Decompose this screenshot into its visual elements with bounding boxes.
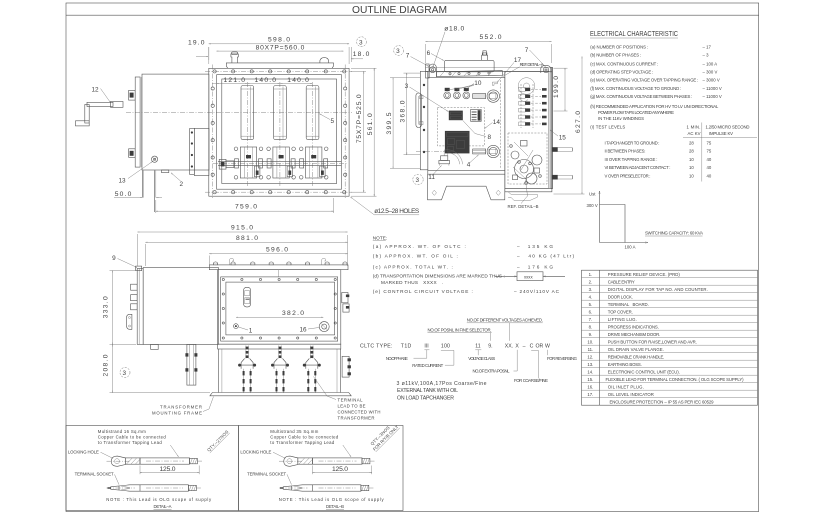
svg-text:(b) APPROX. WT. OF OIL :: (b) APPROX. WT. OF OIL :: [373, 253, 458, 258]
svg-text:7: 7: [406, 53, 410, 60]
svg-text:NO.OF DIFFERENT VOLTAGES ACHIE: NO.OF DIFFERENT VOLTAGES ACHIEVED.: [467, 318, 543, 323]
svg-text:1.2/50 MICRO SECOND: 1.2/50 MICRO SECOND: [706, 124, 750, 129]
cabinet base with notch: [428, 170, 505, 174]
svg-text:552.0: 552.0: [480, 34, 502, 41]
svg-text:399.5: 399.5: [386, 112, 393, 134]
flange centerlines: [205, 70, 352, 72]
svg-text:DOOR LOCK.: DOOR LOCK.: [608, 295, 633, 300]
svg-text:6.: 6.: [589, 310, 593, 315]
svg-text:40: 40: [707, 174, 712, 179]
svg-text:RATED CURRENT: RATED CURRENT: [412, 363, 443, 368]
svg-text:DETAIL–B: DETAIL–B: [326, 504, 344, 509]
svg-text:10.: 10.: [587, 340, 593, 345]
svg-text:ELECTRONIC CONTROL UNIT (ECU).: ELECTRONIC CONTROL UNIT (ECU).: [608, 370, 680, 375]
tank top flange bar (hatched): [209, 265, 348, 270]
svg-text:598.0: 598.0: [268, 36, 290, 43]
svg-text:9.: 9.: [488, 344, 492, 350]
svg-text:TOP COVER.: TOP COVER.: [608, 310, 633, 315]
svg-text:16: 16: [300, 327, 308, 334]
svg-text:QTY.–27NOS: QTY.–27NOS: [206, 429, 229, 452]
svg-text:7: 7: [525, 47, 529, 54]
left end plate (section, dark): [426, 64, 430, 78]
svg-text:– 3000 V: – 3000 V: [703, 77, 720, 82]
compartment divider: [504, 71, 506, 188]
right lower flange column: [342, 356, 349, 377]
right flange bolts: [344, 87, 347, 176]
svg-text:300 V: 300 V: [587, 203, 598, 208]
svg-text:SWITCHING CAPACITY: 60 KVA: SWITCHING CAPACITY: 60 KVA: [645, 231, 703, 236]
svg-text:915.0: 915.0: [231, 225, 253, 232]
item 16 oil inlet plug: [319, 322, 329, 332]
svg-text:to Transformer Tapping Lead: to Transformer Tapping Lead: [270, 440, 335, 445]
svg-text:(f) MAX. CONTINUOUS VOLTAGE TO: (f) MAX. CONTINUOUS VOLTAGE TO GROUND :: [590, 86, 681, 91]
svg-text:ELECTRICAL CHARACTERISTIC: ELECTRICAL CHARACTERISTIC: [590, 29, 678, 38]
terminal assembly 1: [238, 346, 256, 394]
PRD nipple on cover: [482, 55, 488, 60]
svg-text:10: 10: [689, 174, 694, 179]
lifting hooks: [230, 258, 234, 265]
top flange band (hatched): [437, 71, 503, 77]
bottom flange: [218, 344, 341, 349]
right dome fitting on lid: [320, 58, 329, 63]
terminal board: [471, 110, 482, 122]
svg-text:EARTHING BOSS.: EARTHING BOSS.: [608, 362, 642, 367]
crank handle item 12: [87, 102, 113, 106]
svg-text:9: 9: [112, 255, 116, 262]
tap selector cylinder 2: [274, 86, 287, 140]
svg-text:TERMINAL SOCKET: TERMINAL SOCKET: [247, 472, 286, 477]
svg-text:AC KV: AC KV: [688, 131, 701, 136]
svg-text:CLTC TYPE:: CLTC TYPE:: [360, 344, 393, 350]
dashed service rect: [437, 108, 484, 146]
svg-text:596.0: 596.0: [266, 247, 288, 254]
svg-text:POWER FLOW TAPS LOCATED ANYWHE: POWER FLOW TAPS LOCATED ANYWHERE: [598, 110, 674, 115]
svg-text:199.0: 199.0: [553, 76, 560, 98]
bottom flange bolts: [213, 191, 346, 194]
svg-text:DETAIL–A: DETAIL–A: [154, 504, 172, 509]
door handle/lock: [127, 314, 132, 329]
hatch neck: [125, 458, 140, 464]
crank socket lower: [473, 149, 486, 154]
svg-text:3 ø11kV,100A,17Pos Coarse/Fine: 3 ø11kV,100A,17Pos Coarse/Fine: [397, 381, 487, 387]
svg-text:OIL INLET PLUG.: OIL INLET PLUG.: [608, 385, 644, 390]
svg-text:13.: 13.: [587, 362, 593, 367]
svg-text:11: 11: [428, 174, 435, 181]
terminal rods right lower: [552, 175, 572, 179]
terminal rods right upper: [552, 148, 572, 152]
svg-text:368.0: 368.0: [400, 100, 407, 122]
svg-text:Copper Cable to be connected: Copper Cable to be connected: [270, 434, 339, 439]
svg-text:NOTE : This Lead is OLG scope: NOTE : This Lead is OLG scope of supply: [279, 497, 385, 502]
svg-text:881.0: 881.0: [236, 235, 258, 242]
svg-text:NO.OF PHASE: NO.OF PHASE: [386, 356, 408, 361]
svg-text:FLEXIBLE LEAD FOR TERMINAL CON: FLEXIBLE LEAD FOR TERMINAL CONNECTION. (…: [606, 377, 745, 382]
push buttons (10): [444, 88, 470, 99]
svg-text:15.: 15.: [587, 377, 593, 382]
svg-text:12.: 12.: [587, 355, 593, 360]
svg-text:–: –: [523, 344, 526, 350]
lead 2 (bottom): [279, 487, 308, 489]
svg-text:(b) NUMBER OF PHASES :: (b) NUMBER OF PHASES :: [590, 53, 641, 58]
drive box left flange plate: [135, 77, 140, 167]
svg-text:III OVER TAPPING RANGE :: III OVER TAPPING RANGE :: [605, 157, 658, 162]
svg-text:12: 12: [92, 86, 100, 93]
svg-text:28: 28: [689, 149, 694, 154]
svg-text:FOR REVERSING: FOR REVERSING: [547, 356, 578, 361]
selector mechanism 1: [234, 147, 263, 179]
svg-text:PROGRESS INDICATIONS.: PROGRESS INDICATIONS.: [608, 325, 659, 330]
svg-text:EXTERNAL TANK WITH OIL: EXTERNAL TANK WITH OIL: [397, 388, 458, 394]
lead 2 (bottom): [107, 487, 136, 489]
svg-text:ø12.5–28 HOLES: ø12.5–28 HOLES: [374, 208, 419, 215]
svg-text:2: 2: [180, 181, 184, 188]
svg-text:8.: 8.: [589, 325, 593, 330]
compartment base: [505, 188, 552, 192]
rotated qty text 2 lines: [368, 420, 400, 452]
svg-text:W: W: [545, 344, 550, 350]
svg-text:80X7P=560.0: 80X7P=560.0: [256, 44, 305, 51]
svg-text:(c) MAX. CONTINUOUS CURRENT :: (c) MAX. CONTINUOUS CURRENT :: [590, 61, 658, 66]
svg-text:(a) APPROX. WT. OF OLTC :: (a) APPROX. WT. OF OLTC :: [373, 244, 466, 249]
svg-text:TRANSFORMER: TRANSFORMER: [338, 416, 375, 421]
svg-text:3: 3: [396, 48, 400, 55]
svg-text:IN THE 11Kv WINDINGS: IN THE 11Kv WINDINGS: [598, 116, 644, 121]
svg-text:16.: 16.: [587, 385, 593, 390]
svg-text:REMOVABLE CRANK HANDLE.: REMOVABLE CRANK HANDLE.: [608, 355, 665, 360]
svg-text:LIFTING LUG.: LIFTING LUG.: [608, 317, 637, 322]
svg-text:ENCLOSURE PROTECTION – IP 55 A: ENCLOSURE PROTECTION – IP 55 AS PER IEC …: [610, 400, 715, 405]
svg-text:– 40 KG (47 Ltr): – 40 KG (47 Ltr): [517, 253, 574, 258]
svg-text:11.: 11.: [588, 347, 594, 352]
svg-text:LOCKING HOLE: LOCKING HOLE: [68, 450, 99, 455]
bottom tab: [151, 344, 159, 349]
lifting lug left (7): [429, 64, 436, 77]
svg-text:DRIVE MECHANISM DOOR.: DRIVE MECHANISM DOOR.: [608, 332, 661, 337]
drive box left flange: [137, 269, 143, 345]
svg-text:– 11000 V: – 11000 V: [703, 94, 722, 99]
graph X axis: [600, 242, 649, 244]
tank outer flange rect: [209, 68, 349, 196]
svg-text:CABLE ENTRY: CABLE ENTRY: [608, 280, 635, 285]
svg-text:Multistrand 35 Sq.mm: Multistrand 35 Sq.mm: [270, 429, 318, 434]
svg-text:X: X: [515, 344, 519, 350]
svg-text:I TAPCHANGER TO GROUND :: I TAPCHANGER TO GROUND :: [605, 140, 660, 145]
svg-text:XX.: XX.: [505, 344, 513, 350]
svg-text:14: 14: [493, 119, 501, 126]
svg-text:NOTE:: NOTE:: [373, 235, 387, 240]
svg-text:10: 10: [689, 165, 694, 170]
right compartment: [505, 71, 549, 188]
svg-text:125.0: 125.0: [160, 466, 176, 473]
earthing boss item 13: [152, 156, 158, 162]
svg-text:DIGITAL DISPLAY FOR TAP NO. AN: DIGITAL DISPLAY FOR TAP NO. AND COUNTER.: [608, 287, 708, 292]
transformer mounting frame bar: [210, 393, 351, 396]
svg-text:1.: 1.: [589, 272, 593, 277]
svg-text:75: 75: [707, 140, 712, 145]
door handle: [416, 93, 422, 128]
svg-text:OIL DRAIN VALVE FLANGE.: OIL DRAIN VALVE FLANGE.: [608, 347, 664, 352]
svg-text:(d) TRANSPORTATION DIMENSIONS: (d) TRANSPORTATION DIMENSIONS ARE MARKED…: [373, 274, 505, 279]
svg-text:ON LOAD TAPCHANGER: ON LOAD TAPCHANGER: [397, 395, 454, 401]
tank top lid: [226, 63, 333, 68]
svg-text:208.0: 208.0: [102, 354, 109, 376]
svg-text:MARKED THUS XXXX .: MARKED THUS XXXX .: [381, 280, 443, 285]
svg-text:– 11000 V: – 11000 V: [703, 86, 722, 91]
drive box legs: [142, 170, 144, 197]
svg-text:333.0: 333.0: [102, 296, 109, 318]
svg-text:382.0: 382.0: [282, 310, 304, 317]
selector column centerlines: [246, 82, 248, 186]
svg-text:17.: 17.: [587, 392, 593, 397]
svg-text:4.: 4.: [589, 295, 593, 300]
balloon 3 top: [394, 46, 404, 56]
lead 1 (top): [279, 460, 303, 462]
svg-text:11: 11: [475, 344, 480, 350]
svg-text:(g) MAX. CONTINUOUS VOLTAGE BE: (g) MAX. CONTINUOUS VOLTAGE BETWEEN PHAS…: [590, 94, 692, 99]
terminal lug stack (flexible leads): [519, 88, 547, 126]
svg-text:TERMINAL: TERMINAL: [338, 398, 364, 403]
graph Y axis: [599, 191, 601, 243]
svg-text:13: 13: [119, 178, 127, 185]
top cover (6): [444, 60, 494, 72]
svg-text:CONNECTED WITH: CONNECTED WITH: [338, 410, 381, 415]
svg-text:(a) NUMBER OF POSITIONS :: (a) NUMBER OF POSITIONS :: [590, 45, 648, 50]
svg-text:140.0: 140.0: [287, 77, 309, 84]
oil level indicator (17) bracket: [492, 82, 497, 85]
inner frame: [222, 79, 337, 184]
door inner: [226, 282, 335, 335]
svg-text:IMPULSE KV: IMPULSE KV: [709, 131, 733, 136]
svg-text:1: 1: [249, 328, 253, 335]
lead 1 (top): lug end: [107, 460, 131, 462]
left side tabs: [131, 284, 138, 290]
door bolts: [222, 278, 336, 339]
balloon 3: [120, 368, 130, 378]
flange bolts (nuts on top): [213, 262, 347, 265]
svg-text:10: 10: [689, 157, 694, 162]
left flange bolts: [211, 87, 214, 176]
svg-text:– 17: – 17: [703, 45, 712, 50]
svg-text:(h) RECOMMENDED APPLICATION FO: (h) RECOMMENDED APPLICATION FOR HV TO LV…: [590, 104, 719, 109]
svg-text:MOUNTING FRAME: MOUNTING FRAME: [152, 410, 202, 415]
door outer: [221, 277, 338, 341]
oil level capsule: [244, 287, 251, 307]
svg-text:5: 5: [331, 118, 335, 125]
svg-text:– 100 A: – 100 A: [703, 61, 718, 66]
svg-text:14.: 14.: [587, 370, 593, 375]
svg-text:18.0: 18.0: [353, 51, 370, 58]
title strip line: [66, 14, 759, 16]
svg-text:LOCKING HOLE: LOCKING HOLE: [240, 450, 271, 455]
svg-text:3: 3: [359, 39, 363, 46]
lower gear mechanism: [508, 133, 547, 184]
svg-text:NO.OF POSNL IN FINE SELECTOR.: NO.OF POSNL IN FINE SELECTOR.: [428, 327, 492, 332]
svg-text:VI BETWEEN ADJACENT CONTACT :: VI BETWEEN ADJACENT CONTACT :: [605, 165, 671, 170]
selector mechanism 3: [299, 147, 328, 179]
svg-text:3.: 3.: [589, 287, 593, 292]
top-left cap (9): [136, 266, 142, 271]
ECU box: [445, 131, 470, 154]
svg-text:C: C: [530, 344, 534, 350]
top rim: [426, 67, 552, 69]
flange tab top: [129, 90, 136, 100]
svg-text:Ust: Ust: [589, 192, 596, 197]
tap selector cylinder 1: [241, 86, 254, 140]
svg-text:627.0: 627.0: [575, 111, 582, 133]
svg-text:561.0: 561.0: [367, 113, 374, 135]
svg-text:OUTLINE DIAGRAM: OUTLINE DIAGRAM: [352, 4, 447, 16]
svg-text:REF. DETAIL–B: REF. DETAIL–B: [508, 204, 539, 209]
svg-text:OIL LEVEL INDICATOR: OIL LEVEL INDICATOR: [608, 392, 654, 397]
svg-text:(d) OPERATING STEP VOLTAGE :: (d) OPERATING STEP VOLTAGE :: [590, 69, 653, 74]
svg-text:75: 75: [707, 149, 712, 154]
svg-text:75X7P=525.0: 75X7P=525.0: [356, 94, 363, 143]
svg-text:– 300 V: – 300 V: [703, 69, 718, 74]
lifting lug right (7): [541, 65, 551, 73]
drive box: [143, 268, 218, 345]
PRD fitting on lid: [231, 54, 238, 63]
svg-text:100 A: 100 A: [625, 245, 636, 250]
svg-text:FOR COARSE/FINE: FOR COARSE/FINE: [514, 378, 548, 383]
svg-text:7.: 7.: [589, 317, 593, 322]
svg-text:NO.OF EXTRA POSNL: NO.OF EXTRA POSNL: [473, 369, 511, 374]
digital display (3): [449, 111, 463, 121]
svg-text:TERMINAL BOARD.: TERMINAL BOARD.: [608, 302, 649, 307]
centerline horizontal: [126, 111, 352, 113]
lower drive shaft: [218, 160, 341, 162]
svg-text:(e) MAX. OPERATING VOLTAGE OVE: (e) MAX. OPERATING VOLTAGE OVER TAPPING …: [590, 77, 698, 82]
cabinet body: door hinge rail: [420, 71, 428, 169]
crank socket upper: [473, 94, 486, 99]
right wall section dark: [551, 68, 553, 189]
svg-text:V OVER PRESELECTOR :: V OVER PRESELECTOR :: [605, 174, 651, 179]
svg-text:1 MIN.: 1 MIN.: [687, 124, 701, 129]
svg-text:VOLTAGE CLASS: VOLTAGE CLASS: [468, 356, 495, 361]
svg-text:6: 6: [427, 50, 431, 57]
top flange bolts: [213, 70, 346, 73]
svg-text:9.: 9.: [589, 332, 593, 337]
svg-text:PUSH BUTTON FOR RAISE,LOWER AN: PUSH BUTTON FOR RAISE,LOWER AND AVR.: [608, 340, 697, 345]
oil drain valve (11): [441, 156, 448, 161]
svg-text:– 135 KG: – 135 KG: [517, 244, 553, 249]
threaded end: [190, 458, 198, 463]
svg-text:Multistrand 16 Sq.mm: Multistrand 16 Sq.mm: [98, 429, 146, 434]
svg-text:ø18.0: ø18.0: [444, 26, 464, 33]
svg-text:2.: 2.: [589, 280, 593, 285]
svg-text:to Transformer Tapping Lead: to Transformer Tapping Lead: [98, 440, 163, 445]
gearbox sub-box: [194, 128, 209, 175]
svg-text:121.0: 121.0: [224, 77, 246, 84]
terminal assembly 3: [303, 346, 321, 394]
svg-text:– 3: – 3: [703, 53, 710, 58]
svg-text:TERMINAL SOCKET: TERMINAL SOCKET: [75, 472, 114, 477]
svg-text:3: 3: [416, 177, 420, 184]
skirt: [218, 349, 220, 393]
svg-text:(c) APPROX. TOTAL WT. :: (c) APPROX. TOTAL WT. :: [373, 265, 453, 270]
svg-text:759.0: 759.0: [235, 204, 257, 211]
cover mounting bolts: [449, 73, 451, 75]
svg-text:8: 8: [488, 134, 492, 141]
svg-text:TRANSFORMER: TRANSFORMER: [160, 404, 202, 409]
svg-text:Copper Cable to be connected: Copper Cable to be connected: [98, 434, 167, 439]
svg-text:125.0: 125.0: [332, 466, 348, 473]
svg-text:50.0: 50.0: [115, 191, 132, 198]
shaft left coupling: [219, 159, 226, 169]
geneva housing blob: [518, 78, 535, 95]
svg-text:10: 10: [474, 80, 482, 87]
drive mechanism box: [142, 74, 209, 170]
note d transport box: [495, 275, 517, 277]
item 1 bolt: [234, 324, 239, 329]
svg-text:15: 15: [559, 135, 567, 142]
drain plug item 2 target: [162, 170, 169, 173]
svg-text:– 176 KG: – 176 KG: [517, 265, 553, 270]
svg-text:II BETWEEN PHASES:: II BETWEEN PHASES:: [605, 149, 646, 154]
terminal assembly 2: [271, 346, 289, 394]
svg-text:T1D: T1D: [401, 344, 412, 350]
svg-text:III: III: [424, 344, 428, 350]
svg-text:40: 40: [707, 165, 712, 170]
body: [140, 458, 190, 464]
svg-text:19.0: 19.0: [188, 40, 205, 47]
svg-text:28: 28: [689, 140, 694, 145]
svg-text:3: 3: [123, 370, 127, 377]
svg-text:– 240V/110V AC: – 240V/110V AC: [514, 289, 560, 294]
svg-text:(i) TEST LEVELS: (i) TEST LEVELS: [590, 124, 625, 129]
svg-text:xxxx: xxxx: [524, 275, 533, 280]
svg-text:NOTE : This Lead is OLG scope: NOTE : This Lead is OLG scope of supply: [106, 497, 212, 502]
svg-text:100: 100: [441, 344, 450, 350]
selector mechanism 2: [267, 147, 296, 179]
rotated qty text: [206, 429, 230, 453]
svg-text:PRESSURE RELIEF DEVICE. (PRD): PRESSURE RELIEF DEVICE. (PRD): [608, 272, 681, 277]
balloon 3 (between views): [357, 37, 367, 47]
balloon 3 bottom-left: [413, 174, 423, 184]
door panel: [428, 78, 505, 171]
svg-text:40: 40: [707, 157, 712, 162]
flange tab bottom: [129, 149, 136, 158]
pedestal: [187, 344, 196, 385]
right side tabs: [342, 293, 348, 303]
graph curve rectangle: [600, 205, 626, 243]
svg-text:5.: 5.: [589, 302, 593, 307]
svg-text:(e) CONTROL CIRCUIT VOLTAGE :: (e) CONTROL CIRCUIT VOLTAGE :: [373, 289, 473, 294]
tap selector cylinder 3: [306, 86, 319, 140]
tank inner opening: [217, 75, 342, 190]
svg-text:140.0: 140.0: [255, 77, 277, 84]
svg-text:LEAD TO BE: LEAD TO BE: [338, 404, 366, 409]
svg-text:REF. DETAIL–A: REF. DETAIL–A: [520, 62, 544, 67]
svg-text:OR: OR: [536, 344, 544, 350]
tank body: [218, 270, 341, 345]
